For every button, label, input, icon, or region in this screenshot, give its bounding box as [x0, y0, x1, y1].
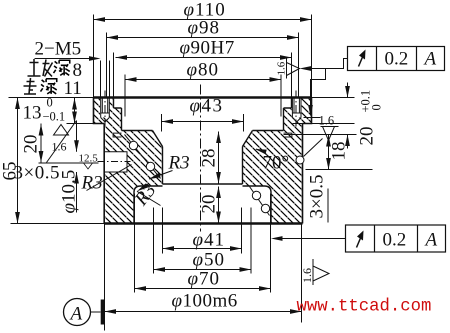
M5 hole centerline right: [295, 91, 297, 127]
dimension φ50: [154, 250, 252, 272]
part axis centerline: [200, 85, 202, 232]
svg-text:www.ttcad.com: www.ttcad.com: [297, 298, 432, 317]
dimension 13 0/-0.1: [23, 96, 94, 124]
svg-text:28: 28: [199, 149, 220, 168]
dimension φ98: [107, 18, 299, 97]
ext lines right: [284, 98, 373, 170]
body outer walls: [104, 124, 302, 224]
surface finish 1.6 right upper: [308, 69, 338, 141]
dimension φ90H7: [114, 38, 292, 97]
70 degree label: [254, 147, 289, 174]
dimension 20 center: [199, 187, 221, 224]
part outline: top face thick: [94, 96, 312, 99]
svg-text:3×0.5: 3×0.5: [14, 163, 60, 184]
svg-text:R3: R3: [81, 173, 103, 194]
rotated 3x0.5 right: [307, 175, 329, 223]
flange outline: [94, 98, 312, 124]
register steps: [114, 107, 292, 109]
dimension φ10.5: [59, 121, 80, 214]
pocket ledge with R3 corners: [134, 186, 271, 224]
groove rects at bore top: [113, 133, 292, 137]
M5 tapped hole left (white cut + outline): [100, 97, 110, 123]
svg-text:φ43: φ43: [190, 96, 224, 117]
svg-text:φ90H7: φ90H7: [180, 38, 235, 59]
dimension 18 right: [326, 135, 349, 170]
radial hole φ10.5 (white cut + outline): [104, 152, 128, 172]
dash-dot centerline of φ10.5 hole: [98, 161, 131, 163]
datum A: [64, 299, 105, 326]
ext lines below part: [105, 194, 302, 331]
text 钻深 11 (drawn strokes): [24, 78, 37, 94]
feature control frame 1: [300, 47, 445, 71]
bottom face thick: [104, 222, 302, 224]
groove circle right wall: [296, 156, 304, 164]
svg-text:φ10.5: φ10.5: [59, 170, 80, 214]
decorative circles + diagonals left ring: [125, 135, 161, 179]
hatched right body block: [243, 131, 303, 224]
dimension 65: [0, 98, 21, 224]
svg-text:20: 20: [357, 127, 378, 146]
svg-text:R3: R3: [168, 153, 190, 174]
svg-text:0.2: 0.2: [383, 230, 407, 251]
bottom face thin ext left for 65: [11, 223, 105, 225]
svg-text:−0.1: −0.1: [43, 110, 66, 124]
under-flange recess lines: [113, 133, 302, 134]
dimension φ70: [135, 269, 271, 291]
feature control frame 2: [271, 225, 446, 252]
hatched right flange block: [284, 98, 312, 135]
svg-text:0: 0: [370, 104, 384, 110]
svg-text:18: 18: [329, 142, 350, 161]
svg-text:1.6: 1.6: [319, 114, 335, 128]
svg-text:A: A: [423, 49, 437, 70]
svg-text:13: 13: [23, 103, 42, 124]
hatched left body block: [104, 131, 162, 224]
dimension φ80: [125, 60, 281, 117]
svg-text:φ80: φ80: [187, 60, 220, 81]
R3 leader 3: [81, 165, 132, 194]
surface finish 1.6 bottom right rotated: [300, 259, 329, 285]
dimension φ100m6: [105, 291, 302, 314]
svg-text:1.6: 1.6: [300, 268, 314, 283]
svg-text:70°: 70°: [263, 153, 290, 174]
ledge at y130: [122, 130, 284, 132]
R3 leader 1: [148, 153, 189, 182]
svg-text:φ70: φ70: [188, 269, 221, 290]
svg-text:1.6: 1.6: [52, 140, 67, 154]
svg-text:0.2: 0.2: [385, 49, 409, 70]
svg-text:1.6: 1.6: [276, 61, 288, 75]
surface finish 1.6 left: [47, 121, 77, 163]
dimension 28: [199, 132, 221, 184]
top face extension line to the left: [9, 97, 94, 99]
center cylinder walls: [163, 147, 243, 185]
dimension 20 left: [21, 124, 99, 164]
upper bore walls φ80: [122, 108, 284, 131]
svg-text:11: 11: [64, 78, 82, 99]
hatched left flange block: [94, 98, 122, 131]
svg-text:20: 20: [199, 195, 220, 214]
surface finish 1.6 at bore mouth right: [276, 59, 300, 79]
dimension 20 +0.1/0 right: [345, 83, 383, 149]
svg-text:2−M5: 2−M5: [35, 39, 82, 60]
text 攻深 8 (drawn strokes): [28, 59, 53, 77]
svg-text:A: A: [69, 304, 83, 325]
svg-text:3×0.5: 3×0.5: [307, 175, 328, 219]
svg-text:φ100m6: φ100m6: [172, 291, 238, 312]
dimension φ110: [94, 0, 312, 98]
svg-text:φ41: φ41: [193, 230, 226, 251]
dimension φ41: [163, 230, 242, 251]
M5 hole centerline left: [104, 91, 106, 127]
R3 leader 2: [130, 180, 160, 210]
svg-text:0: 0: [47, 96, 53, 110]
70 degree cone: [153, 131, 253, 147]
svg-text:φ98: φ98: [188, 18, 221, 39]
surface finish 12.5: [79, 153, 99, 170]
svg-text:20: 20: [21, 135, 42, 154]
decorative circles + diagonal right pocket: [250, 187, 270, 216]
svg-text:φ50: φ50: [193, 250, 226, 271]
M5 tapped hole right: [292, 97, 302, 123]
dimension φ43: [162, 96, 244, 132]
inner register walls φ90H7: [114, 98, 292, 109]
svg-text:A: A: [424, 230, 438, 251]
